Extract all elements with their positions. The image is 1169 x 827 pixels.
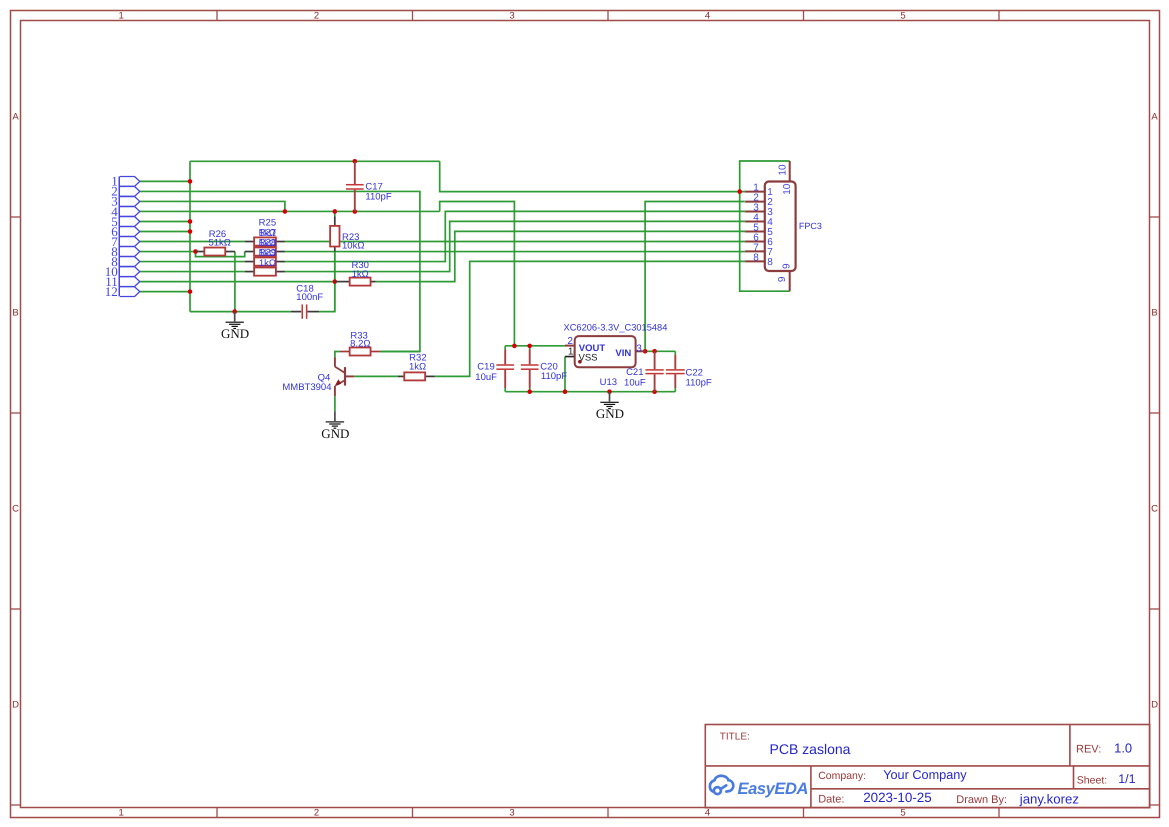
junction dots [188,159,742,394]
wire C22 column top [674,351,676,355]
resistor R32 [398,352,435,380]
svg-text:A: A [12,111,19,122]
svg-text:51kΩ: 51kΩ [208,238,230,249]
svg-text:9: 9 [782,263,793,269]
svg-text:8.2Ω: 8.2Ω [350,338,370,349]
svg-text:R29: R29 [259,247,276,258]
EasyEDA logo [710,776,808,798]
svg-text:PCB zaslona: PCB zaslona [770,741,851,757]
wire pin3 jog down [140,201,285,211]
wire R32 out rise to FPC pin8 [435,261,746,376]
svg-text:EasyEDA: EasyEDA [738,780,809,798]
wire pin10 to R29 [140,271,245,273]
svg-text:C: C [12,503,19,514]
svg-text:GND: GND [596,406,624,421]
svg-text:VIN: VIN [615,348,631,359]
connector FPC3 [745,161,822,291]
wire VIN to C21 C22 [645,350,675,352]
wire pin8 jog to R27 [196,252,245,257]
title block [705,725,1149,808]
svg-text:jany.korez: jany.korez [1019,791,1079,806]
wire pin8 to R26 node [140,251,196,253]
svg-text:2023-10-25: 2023-10-25 [863,790,932,805]
capacitor C18 [291,284,323,319]
svg-text:3: 3 [509,11,514,22]
wire VOUT branch from pins3/4 [440,202,515,346]
wire GND top rail [190,160,440,162]
svg-text:GND: GND [221,326,249,341]
resistor R30 [335,260,376,285]
svg-text:2: 2 [314,808,319,819]
wire base to R32 [354,375,398,377]
svg-text:A: A [1151,111,1158,122]
svg-text:1kΩ: 1kΩ [409,361,426,372]
svg-text:D: D [12,699,19,710]
svg-text:1.0: 1.0 [1114,740,1132,755]
svg-text:TITLE:: TITLE: [720,731,750,742]
wire R25 out to FPC pin6 [285,241,745,243]
wire GND bus vertical [189,161,191,311]
svg-text:2: 2 [314,11,319,22]
ground GND (Q4) [321,411,349,441]
svg-text:2: 2 [567,336,573,347]
svg-text:1kΩ: 1kΩ [352,269,369,280]
svg-text:C: C [1151,503,1158,514]
svg-text:1kΩ: 1kΩ [259,258,276,269]
svg-text:3: 3 [509,808,514,819]
resistor R27 [245,227,285,255]
ground GND (left) [221,312,249,342]
svg-text:4: 4 [705,808,710,819]
svg-text:D: D [1151,699,1158,710]
wire R30 out rise to FPC pin5 [376,231,745,281]
svg-text:9: 9 [777,276,788,282]
capacitor C20 [521,350,567,389]
svg-text:10uF: 10uF [624,378,646,389]
op-amp U13 XC6206 regulator [564,322,668,388]
svg-text:110pF: 110pF [686,377,712,388]
capacitor C19 [475,350,514,389]
wire C20 column top [529,346,531,350]
svg-text:Your Company: Your Company [883,768,967,782]
wire C20 column bottom [529,388,531,392]
svg-text:MMBT3904: MMBT3904 [282,382,331,393]
wire R23 top link [334,211,336,216]
svg-text:1: 1 [119,808,124,819]
svg-text:5: 5 [900,808,905,819]
wire C18 right to R23 bottom node [319,252,335,312]
svg-text:4: 4 [705,11,710,22]
svg-text:GND: GND [321,426,349,441]
wire U13 bottom rail [505,391,675,393]
wire pin4 row [140,210,440,212]
svg-text:10kΩ: 10kΩ [342,241,364,252]
svg-text:FPC3: FPC3 [799,221,822,231]
wire R27 out to FPC pin7 [285,251,745,253]
svg-text:1: 1 [119,11,124,22]
svg-text:12: 12 [105,284,118,299]
svg-text:Drawn By:: Drawn By: [956,794,1007,806]
svg-text:8: 8 [753,252,759,263]
wire U13 VSS down [564,357,566,392]
resistor R25 [245,217,285,245]
wire GND rail bottom left [190,311,291,313]
resistor R26 [196,229,235,255]
capacitor C17 [346,161,392,211]
svg-text:Date:: Date: [818,794,844,806]
connector J1 12-pin [105,174,140,299]
capacitor C22 [666,355,712,388]
wire FPC pins 9 10 loop [740,161,790,291]
svg-text:1/1: 1/1 [1118,772,1135,786]
resistor R28 [245,237,285,265]
resistor R23 [330,217,364,252]
svg-text:B: B [1151,307,1157,318]
wire VOUT rail [505,345,565,347]
wire C22 column bottom [674,388,676,392]
svg-text:XC6206-3.3V_C3015484: XC6206-3.3V_C3015484 [564,322,668,332]
svg-text:Sheet:: Sheet: [1077,775,1107,787]
wire pin2 net [140,191,420,351]
capacitor C21 [624,351,664,391]
svg-text:10: 10 [778,164,789,176]
wire R28 out rise to FPC pin3 [285,211,745,261]
wire R23 bottom column [334,252,336,312]
svg-text:1: 1 [568,347,574,358]
wire pin1 to bus [140,180,190,182]
wire pin7 to R25 [140,241,245,243]
wire VIN to FPC pin2 [645,202,745,352]
svg-text:U13: U13 [600,377,617,388]
wire C19 column top [504,346,506,350]
svg-text:110pF: 110pF [541,371,567,382]
svg-text:10uF: 10uF [475,372,497,383]
wire R26 right to GND rail [234,252,236,312]
wire C19 column bottom [504,388,506,392]
wire R33 left to Q4 collector [335,352,340,358]
resistor R29 [245,247,285,275]
wire GND rail step down to FPC pin1 row [440,161,745,191]
wire R29 out rise to FPC pin4 [285,221,745,271]
transistor Q4 [282,357,354,396]
wire R33 right to pin2 net [381,351,420,353]
svg-text:Company:: Company: [818,770,866,782]
svg-text:5: 5 [900,11,905,22]
wire pin9 to R28 [140,261,245,263]
wire pin6 to bus [140,231,190,233]
svg-text:110pF: 110pF [365,191,391,202]
wire pin5 to bus [140,220,190,222]
svg-text:B: B [12,307,18,318]
svg-text:3: 3 [636,344,642,355]
wire pin11 to R30 [140,281,335,283]
svg-text:100nF: 100nF [296,292,323,303]
wire pin12 to bus [140,291,190,293]
wire Q4 emitter to GND [334,396,336,411]
svg-text:10: 10 [782,183,793,195]
svg-text:REV:: REV: [1076,744,1101,756]
svg-text:8: 8 [767,257,773,268]
resistor R33 [340,330,381,355]
ground GND (U13) [596,392,624,422]
